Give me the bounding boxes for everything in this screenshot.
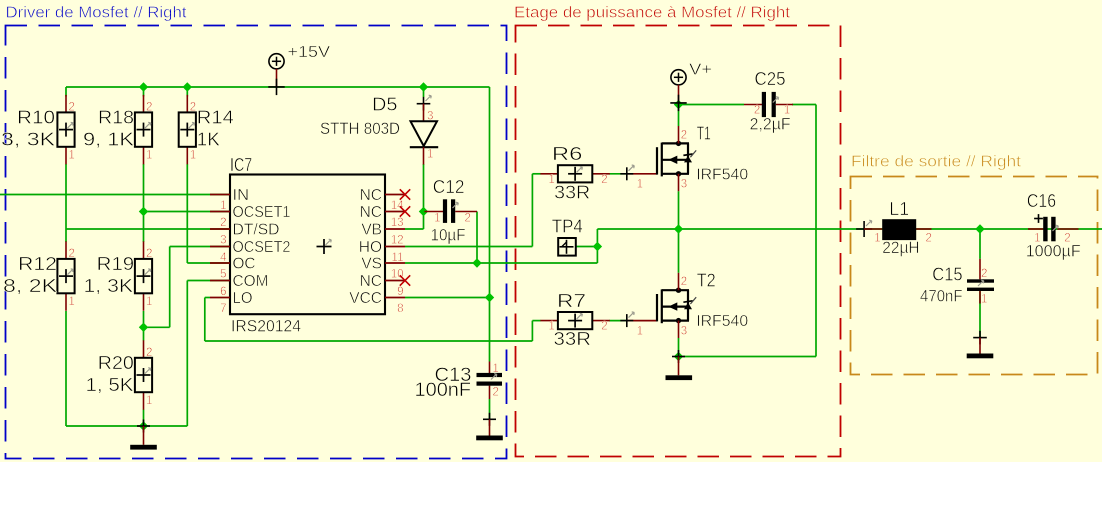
svg-text:2: 2 xyxy=(601,174,607,186)
svg-text:IRS20124: IRS20124 xyxy=(231,317,301,336)
svg-text:2: 2 xyxy=(601,321,607,333)
junction C15 / output line xyxy=(975,224,984,233)
svg-text:OC: OC xyxy=(233,256,256,273)
svg-text:9, 1K: 9, 1K xyxy=(83,129,134,149)
pin 13 NC xyxy=(385,211,405,213)
junction R14 / +15V rail xyxy=(183,82,192,91)
wire OC net xyxy=(187,262,230,264)
svg-text:5: 5 xyxy=(220,269,226,281)
svg-text:1: 1 xyxy=(146,150,152,162)
pin 6 COM xyxy=(210,280,230,282)
svg-text:VB: VB xyxy=(361,222,382,239)
svg-text:1: 1 xyxy=(493,363,499,375)
svg-text:2: 2 xyxy=(146,101,152,113)
wire R6 to T1 gate xyxy=(609,173,627,175)
wire IN net from left edge xyxy=(0,194,230,196)
svg-text:+15V: +15V xyxy=(288,44,331,61)
pin 3 DT/SD xyxy=(210,228,230,230)
wire OCSET2 net xyxy=(170,246,230,248)
junction C12 pin1 / VB / D5 xyxy=(419,207,428,216)
diode D5 STTH 803D xyxy=(320,95,438,165)
zone box: Filtre de sortie xyxy=(851,154,1098,375)
wire R7 to T2 gate xyxy=(609,320,627,322)
svg-text:3: 3 xyxy=(681,179,687,191)
svg-text:22µH: 22µH xyxy=(882,239,919,257)
svg-text:R20: R20 xyxy=(98,353,134,373)
pin 2 OCSET1 xyxy=(210,211,230,213)
resistor R7 xyxy=(540,291,609,349)
svg-text:NC: NC xyxy=(360,273,382,290)
svg-text:8: 8 xyxy=(397,303,403,315)
junction OCSET1 / R18 / R19 xyxy=(139,207,148,216)
svg-text:2: 2 xyxy=(69,101,75,113)
wire COM net xyxy=(187,280,230,282)
svg-text:HO: HO xyxy=(359,239,382,256)
junction output node / T1 source / T2 drain xyxy=(674,224,683,233)
wire C25 to right riser xyxy=(792,104,816,106)
svg-text:1: 1 xyxy=(427,149,433,161)
svg-text:R12: R12 xyxy=(18,254,57,274)
pin 1 IN xyxy=(210,194,230,196)
svg-text:10µF: 10µF xyxy=(431,227,466,245)
svg-text:2: 2 xyxy=(190,101,196,113)
resistor R14 xyxy=(179,95,234,164)
svg-text:2: 2 xyxy=(465,212,471,224)
svg-text:10: 10 xyxy=(391,269,404,281)
junction TP4 / VS riser xyxy=(593,242,602,251)
svg-text:1: 1 xyxy=(190,150,196,162)
svg-text:3, 3K: 3, 3K xyxy=(1,129,55,149)
capacitor C12 10uF xyxy=(425,177,478,245)
pin 8 VCC xyxy=(385,297,405,299)
svg-text:TP4: TP4 xyxy=(552,217,583,237)
wire right rail down to VCC and C13 xyxy=(489,87,491,362)
pin 12 VB xyxy=(385,228,405,230)
svg-text:C15: C15 xyxy=(932,264,962,284)
svg-text:1: 1 xyxy=(220,200,226,212)
wire ground rail bottom left xyxy=(66,425,187,427)
svg-text:2: 2 xyxy=(981,268,987,280)
svg-text:C16: C16 xyxy=(1027,191,1056,211)
capacitor C25 2,2uF xyxy=(744,69,793,133)
pin 14 NC xyxy=(385,194,405,196)
wire VS net xyxy=(405,262,597,264)
svg-text:1, 3K: 1, 3K xyxy=(84,276,134,296)
wire C15 column xyxy=(979,229,981,259)
svg-text:2: 2 xyxy=(69,248,75,260)
svg-text:V+: V+ xyxy=(689,62,712,79)
svg-text:1: 1 xyxy=(874,233,880,245)
svg-text:Etage de puissance à Mosfet //: Etage de puissance à Mosfet // Right xyxy=(514,5,791,22)
pin 4 OCSET2 xyxy=(210,246,230,248)
junction R19 / R20 / OCSET2 xyxy=(139,323,148,332)
wire V+ to C25 xyxy=(679,104,745,106)
svg-text:OCSET2: OCSET2 xyxy=(233,239,291,256)
svg-text:2: 2 xyxy=(220,217,226,229)
junction T2 source / ground xyxy=(674,352,683,361)
pin 7 LO xyxy=(210,297,230,299)
svg-text:2: 2 xyxy=(681,129,687,141)
svg-text:9: 9 xyxy=(397,286,403,298)
wire R12 top xyxy=(65,229,67,242)
wire C12 pin2 drop xyxy=(476,212,478,264)
svg-text:NC: NC xyxy=(360,187,382,204)
zone box: Etage de puissance xyxy=(514,5,841,457)
test point TP4 xyxy=(552,217,583,256)
svg-text:470nF: 470nF xyxy=(920,288,963,306)
junction VS / C12 pin2 xyxy=(472,258,481,267)
svg-text:2: 2 xyxy=(146,347,152,359)
no-connect marks xyxy=(400,189,410,199)
svg-text:3: 3 xyxy=(220,235,226,247)
ground below C15 xyxy=(967,331,994,359)
wire T2 source xyxy=(678,338,680,357)
svg-text:STTH 803D: STTH 803D xyxy=(320,120,400,138)
resistor R19 xyxy=(84,241,153,310)
wire R18 column xyxy=(143,87,145,97)
svg-text:2: 2 xyxy=(493,387,499,399)
resistor R10 xyxy=(1,95,75,164)
transistor T1 xyxy=(620,124,748,192)
svg-text:DT/SD: DT/SD xyxy=(233,222,280,239)
wire C13 to ground xyxy=(489,399,491,419)
svg-text:3: 3 xyxy=(681,326,687,338)
junction D5 / +15V rail xyxy=(419,82,428,91)
wire HO net xyxy=(405,246,532,248)
svg-text:1: 1 xyxy=(637,326,643,338)
pin 11 HO xyxy=(385,246,405,248)
svg-text:LO: LO xyxy=(233,290,253,307)
IC U1 IC7 IRS20124 gate driver xyxy=(210,155,410,336)
capacitor C16 1000uF polarized xyxy=(1026,191,1081,261)
svg-text:T2: T2 xyxy=(697,270,716,290)
svg-text:1, 5K: 1, 5K xyxy=(86,375,134,395)
svg-text:1: 1 xyxy=(69,150,75,162)
junction ground rail xyxy=(139,421,148,430)
svg-text:2: 2 xyxy=(926,233,932,245)
wire LO net xyxy=(205,297,210,299)
svg-text:L1: L1 xyxy=(889,199,909,219)
svg-text:7: 7 xyxy=(220,303,226,315)
svg-text:1: 1 xyxy=(434,212,440,224)
svg-text:14: 14 xyxy=(391,200,404,212)
pin 10 VS xyxy=(385,262,405,264)
svg-text:VS: VS xyxy=(361,256,382,273)
svg-text:1: 1 xyxy=(637,179,643,191)
resistor R18 xyxy=(83,95,152,164)
svg-text:Filtre de sortie // Right: Filtre de sortie // Right xyxy=(851,154,1022,171)
svg-text:IN: IN xyxy=(233,187,250,204)
svg-text:C12: C12 xyxy=(433,177,465,197)
capacitor C13 100nF xyxy=(415,362,503,401)
svg-text:13: 13 xyxy=(391,217,404,229)
svg-text:1: 1 xyxy=(981,294,987,306)
ground below T2 xyxy=(666,350,693,380)
svg-text:R7: R7 xyxy=(557,291,586,311)
svg-text:C25: C25 xyxy=(755,69,786,89)
svg-text:IRF540: IRF540 xyxy=(696,166,748,183)
svg-text:R18: R18 xyxy=(98,107,134,127)
svg-text:1: 1 xyxy=(146,395,152,407)
svg-text:IC7: IC7 xyxy=(230,155,252,175)
junction V+ node xyxy=(674,100,683,109)
svg-text:2,2µF: 2,2µF xyxy=(750,115,791,133)
power symbol +15V xyxy=(268,44,330,95)
wire TP4 stub xyxy=(576,246,597,248)
wire DT/SD net xyxy=(66,228,230,230)
svg-text:1: 1 xyxy=(146,296,152,308)
svg-text:1: 1 xyxy=(69,296,75,308)
transistor T2 xyxy=(620,270,748,338)
svg-text:2: 2 xyxy=(681,276,687,288)
svg-text:Driver de Mosfet // Right: Driver de Mosfet // Right xyxy=(6,5,188,22)
wire D5 column xyxy=(423,87,425,97)
inductor L1 22uH xyxy=(856,199,932,257)
svg-text:T1: T1 xyxy=(697,124,711,144)
zone box: Driver de Mosfet xyxy=(6,5,507,459)
svg-text:12: 12 xyxy=(391,235,404,247)
svg-text:1K: 1K xyxy=(197,129,220,149)
wire R19 bottom to R20 xyxy=(143,311,145,341)
ground bottom left xyxy=(130,420,157,450)
wire VCC pin8 xyxy=(405,297,490,299)
wire R12 bottom xyxy=(65,311,67,426)
resistor R6 xyxy=(540,144,609,202)
svg-text:R6: R6 xyxy=(552,144,583,164)
svg-text:8, 2K: 8, 2K xyxy=(3,276,57,296)
svg-text:R10: R10 xyxy=(17,107,55,127)
wire R10 column xyxy=(65,87,67,97)
svg-text:2: 2 xyxy=(146,248,152,260)
svg-text:VCC: VCC xyxy=(349,290,382,307)
svg-text:NC: NC xyxy=(360,204,382,221)
pin 5 OC xyxy=(210,262,230,264)
svg-text:6: 6 xyxy=(220,286,226,298)
junction R18 / +15V rail xyxy=(139,82,148,91)
svg-text:33R: 33R xyxy=(554,329,592,349)
svg-text:IRF540: IRF540 xyxy=(696,313,748,330)
wire T1 source to output xyxy=(678,191,680,229)
capacitor C15 470nF xyxy=(920,259,994,306)
junction VCC / C13 xyxy=(485,293,494,302)
ground below C13 xyxy=(476,413,503,441)
svg-text:R19: R19 xyxy=(97,254,135,274)
svg-text:R14: R14 xyxy=(197,107,234,127)
svg-text:33R: 33R xyxy=(554,182,590,202)
wire R20 bottom xyxy=(143,410,145,427)
resistor R12 xyxy=(3,241,75,310)
svg-text:OCSET1: OCSET1 xyxy=(233,204,291,221)
resistor R20 xyxy=(86,340,153,409)
svg-text:D5: D5 xyxy=(372,95,398,115)
wire VB to C12 xyxy=(405,228,424,230)
svg-text:1000µF: 1000µF xyxy=(1026,243,1081,261)
wire main output line xyxy=(597,228,1102,230)
power symbol V+ xyxy=(670,62,712,112)
wire OCSET1 net xyxy=(144,211,231,213)
pin 9 NC xyxy=(385,280,405,282)
svg-text:COM: COM xyxy=(233,273,269,290)
wire +15V top rail xyxy=(66,86,490,88)
svg-text:100nF: 100nF xyxy=(415,379,472,401)
wire T1 drain xyxy=(678,105,680,127)
wire T2 drain xyxy=(678,229,680,273)
wire R14 column xyxy=(186,87,188,97)
